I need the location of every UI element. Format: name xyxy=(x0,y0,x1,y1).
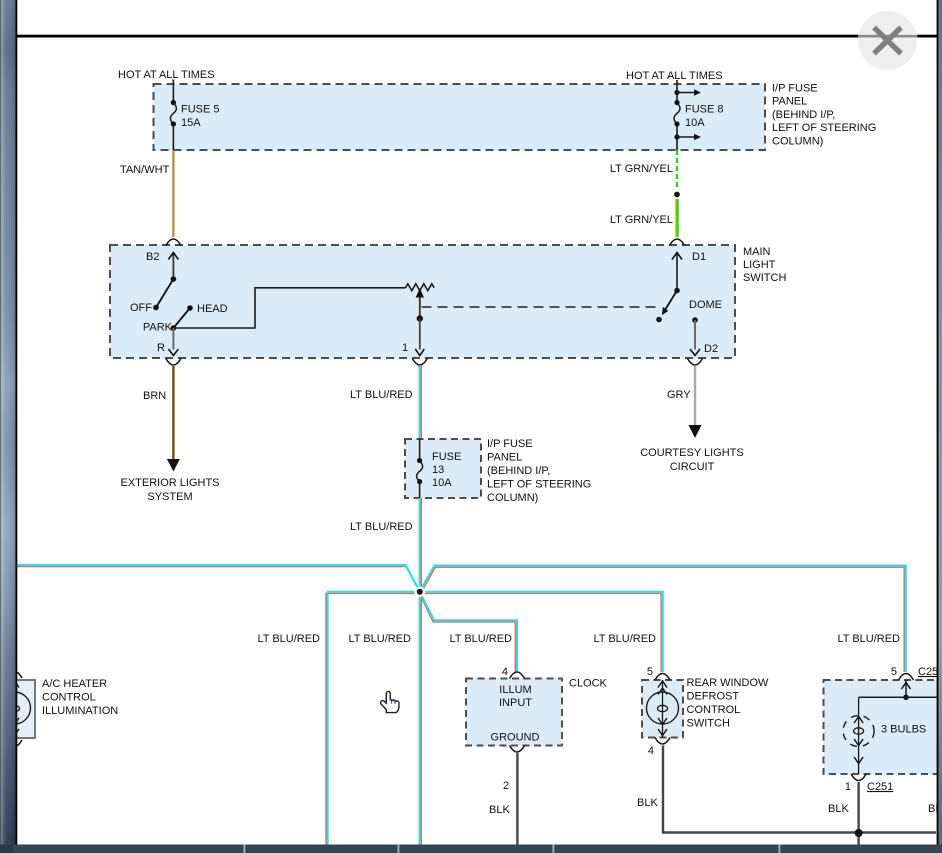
svg-text:SWITCH: SWITCH xyxy=(743,272,786,284)
wire LT BLU/RED branch right upper (to 3 bulbs) xyxy=(420,566,906,672)
switch contact DOME and terminal D2 arrow xyxy=(690,317,718,355)
switch contact HEAD xyxy=(187,303,227,315)
fuse FUSE 13 10A xyxy=(417,439,462,498)
svg-text:(BEHIND I/P,: (BEHIND I/P, xyxy=(487,465,550,477)
lamp defrost switch indicator bulb xyxy=(647,680,679,738)
resistor dimmer rheostat xyxy=(406,284,435,291)
svg-text:BLK: BLK xyxy=(489,804,510,816)
svg-text:LT BLU/RED: LT BLU/RED xyxy=(449,633,512,645)
label I/P FUSE PANEL (fuse 13) xyxy=(487,438,591,504)
svg-text:I/P FUSE: I/P FUSE xyxy=(487,438,533,450)
svg-text:LEFT OF STEERING: LEFT OF STEERING xyxy=(772,122,876,134)
wire PARK to dimmer rheostat xyxy=(173,288,405,328)
arrow to courtesy lights circuit xyxy=(689,425,702,438)
wire LT BLU/RED branch left down xyxy=(326,592,420,846)
svg-text:SWITCH: SWITCH xyxy=(687,718,730,730)
svg-text:3 BULBS: 3 BULBS xyxy=(881,724,926,736)
wire BLK from bulbs xyxy=(828,782,859,846)
arrow to exterior lights system xyxy=(167,459,180,472)
svg-text:B2: B2 xyxy=(146,251,159,263)
wire LT BLU/RED branch to rear defrost switch xyxy=(420,592,663,672)
svg-text:LT GRN/YEL: LT GRN/YEL xyxy=(610,163,673,175)
window chrome: left gradient strip xyxy=(0,0,16,853)
svg-text:SYSTEM: SYSTEM xyxy=(147,491,192,503)
svg-text:OFF: OFF xyxy=(130,302,152,314)
wire LT BLU/RED branch to clock xyxy=(420,592,517,672)
connector bump at B2 xyxy=(166,239,181,246)
svg-text:4: 4 xyxy=(502,666,508,678)
connector cup below 1 xyxy=(412,359,427,366)
svg-text:PARK: PARK xyxy=(143,322,173,334)
svg-text:D2: D2 xyxy=(704,343,718,355)
svg-text:ILLUMINATION: ILLUMINATION xyxy=(42,705,118,717)
connector bump at clock pin 4 xyxy=(510,672,525,679)
svg-text:CIRCUIT: CIRCUIT xyxy=(670,461,715,473)
switch blade B2-OFF xyxy=(153,276,176,310)
svg-text:A/C HEATER: A/C HEATER xyxy=(42,678,107,690)
svg-text:GROUND: GROUND xyxy=(491,732,540,744)
svg-text:FUSE 5: FUSE 5 xyxy=(181,104,220,116)
label REAR WINDOW DEFROST CONTROL SWITCH xyxy=(687,677,770,730)
A/C heater control illumination box xyxy=(15,680,35,738)
connector bump at D1 xyxy=(670,239,685,246)
svg-text:BRN: BRN xyxy=(143,390,166,402)
I/P fuse panel box (fuse 13) xyxy=(405,439,481,498)
svg-text:LT BLU/RED: LT BLU/RED xyxy=(593,633,656,645)
connector cup below R xyxy=(166,359,181,366)
svg-text:HEAD: HEAD xyxy=(197,303,228,315)
svg-text:GRY: GRY xyxy=(667,389,691,401)
node splice in bulbs box xyxy=(903,695,909,701)
svg-text:D1: D1 xyxy=(692,251,706,263)
wire LT BLU/RED (fuse 13 to junction) xyxy=(350,498,421,592)
wire BRN xyxy=(143,366,173,460)
switch contact PARK xyxy=(143,322,176,334)
label EXTERIOR LIGHTS SYSTEM xyxy=(120,477,219,503)
switch blade D1-dome xyxy=(656,288,680,323)
label I/P FUSE PANEL (top right) xyxy=(772,83,876,148)
svg-text:I/P FUSE: I/P FUSE xyxy=(772,83,818,95)
window chrome: top black rule xyxy=(16,35,938,38)
wire LT BLU/RED (switch to fuse 13) xyxy=(350,366,421,440)
wire BLK from defrost switch xyxy=(637,746,936,833)
window chrome: right black border xyxy=(937,0,939,853)
wire TAN/WHT xyxy=(120,150,173,237)
svg-text:LT BLU/RED: LT BLU/RED xyxy=(350,389,413,401)
node junction splice xyxy=(416,588,424,596)
svg-text:LT BLU/RED: LT BLU/RED xyxy=(837,633,900,645)
svg-text:2: 2 xyxy=(503,780,509,792)
main light switch box xyxy=(110,245,735,358)
svg-text:5: 5 xyxy=(647,666,653,678)
terminal B2 arrow xyxy=(146,251,178,279)
connector cup below D2 xyxy=(688,359,703,366)
svg-text:FUSE: FUSE xyxy=(432,451,461,463)
svg-text:DOME: DOME xyxy=(689,299,722,311)
3 bulbs cluster box xyxy=(824,680,942,774)
connector cup below clock xyxy=(510,746,525,753)
svg-text:C251: C251 xyxy=(867,781,893,793)
wire LT GRN/YEL (dashed upper segment) xyxy=(610,150,677,191)
svg-text:LT GRN/YEL: LT GRN/YEL xyxy=(610,214,673,226)
svg-text:DEFROST: DEFROST xyxy=(687,691,740,703)
svg-text:BLK: BLK xyxy=(637,797,658,809)
window chrome: left black border xyxy=(16,0,18,853)
switch blade HEAD-PARK xyxy=(173,308,190,328)
svg-text:13: 13 xyxy=(432,464,444,476)
wire feed into FUSE 5 xyxy=(172,80,174,85)
terminal 1 wiper arrow and stub xyxy=(402,288,424,355)
close button xyxy=(858,11,918,70)
svg-text:COLUMN): COLUMN) xyxy=(487,492,538,504)
rear window defrost control switch box xyxy=(642,680,683,738)
connector bump at defrost pin 5 xyxy=(655,674,670,681)
node ground splice xyxy=(855,829,863,837)
svg-text:LEFT OF STEERING: LEFT OF STEERING xyxy=(487,479,591,491)
svg-text:CONTROL: CONTROL xyxy=(42,692,96,704)
wire bulbs feed bus xyxy=(859,696,940,698)
terminal D1 arrow xyxy=(672,251,706,291)
svg-text:HOT AT ALL TIMES: HOT AT ALL TIMES xyxy=(118,69,215,81)
svg-text:LT BLU/RED: LT BLU/RED xyxy=(257,633,320,645)
svg-text:MAIN: MAIN xyxy=(743,246,771,258)
terminal R arrow xyxy=(157,328,178,356)
svg-text:(BEHIND I/P,: (BEHIND I/P, xyxy=(772,109,835,121)
svg-text:LT BLU/RED: LT BLU/RED xyxy=(348,633,411,645)
svg-text:CONTROL: CONTROL xyxy=(687,704,741,716)
connector bump at bulbs pin 5 xyxy=(899,674,914,681)
node splice on LT GRN/YEL xyxy=(673,191,681,199)
terminal arrow into bulbs box xyxy=(902,680,911,697)
svg-text:COURTESY LIGHTS: COURTESY LIGHTS xyxy=(640,447,744,459)
lamp A/C heater illumination bulb (half hidden by window edge) xyxy=(0,672,31,747)
wire BLK from clock ground xyxy=(489,753,517,846)
svg-text:TAN/WHT: TAN/WHT xyxy=(120,164,170,176)
svg-text:PANEL: PANEL xyxy=(772,96,807,108)
svg-text:5: 5 xyxy=(891,666,897,678)
clock box xyxy=(466,679,562,746)
svg-text:COLUMN): COLUMN) xyxy=(772,135,823,147)
svg-text:HOT AT ALL TIMES: HOT AT ALL TIMES xyxy=(626,70,723,82)
connector cup below bulbs xyxy=(851,774,866,781)
svg-text:1: 1 xyxy=(402,342,408,354)
fuse FUSE 8 10A xyxy=(674,84,724,150)
svg-text:REAR WINDOW: REAR WINDOW xyxy=(687,677,770,689)
cursor pointer hand xyxy=(381,691,399,712)
label MAIN LIGHT SWITCH xyxy=(743,246,786,284)
wire LT BLU/RED straight down from junction xyxy=(420,592,422,846)
lamp 3 bulbs (one shown, dashed) xyxy=(843,697,874,774)
svg-text:10A: 10A xyxy=(432,477,452,489)
fuse FUSE 5 15A xyxy=(170,84,219,150)
svg-text:R: R xyxy=(157,342,165,354)
svg-text:PANEL: PANEL xyxy=(487,452,522,464)
svg-text:CLOCK: CLOCK xyxy=(569,678,608,690)
wire GRY xyxy=(667,366,695,426)
window chrome: right gradient strip xyxy=(939,0,942,853)
label COURTESY LIGHTS CIRCUIT xyxy=(640,447,744,473)
window chrome: bottom taskbar xyxy=(0,845,942,853)
wire feed into FUSE 8 xyxy=(676,80,678,84)
I/P fuse panel box (top) xyxy=(154,84,766,150)
svg-text:INPUT: INPUT xyxy=(499,697,532,709)
wire LT GRN/YEL (solid lower segment) xyxy=(610,199,678,237)
svg-text:10A: 10A xyxy=(685,117,705,129)
svg-text:FUSE 8: FUSE 8 xyxy=(685,104,724,116)
svg-text:EXTERIOR LIGHTS: EXTERIOR LIGHTS xyxy=(120,477,219,489)
connector cup below defrost switch xyxy=(655,738,670,745)
svg-text:ILLUM: ILLUM xyxy=(499,684,531,696)
svg-text:BLK: BLK xyxy=(828,803,849,815)
svg-text:LIGHT: LIGHT xyxy=(743,259,776,271)
svg-text:4: 4 xyxy=(648,745,654,757)
mechanical linkage dashed line xyxy=(422,306,657,308)
svg-text:LT BLU/RED: LT BLU/RED xyxy=(350,521,413,533)
label A/C HEATER CONTROL ILLUMINATION xyxy=(42,678,118,717)
wire LT BLU/RED feed from left edge xyxy=(14,565,421,593)
svg-text:15A: 15A xyxy=(181,117,201,129)
svg-text:1: 1 xyxy=(845,781,851,793)
label ILLUM INPUT xyxy=(499,684,532,709)
